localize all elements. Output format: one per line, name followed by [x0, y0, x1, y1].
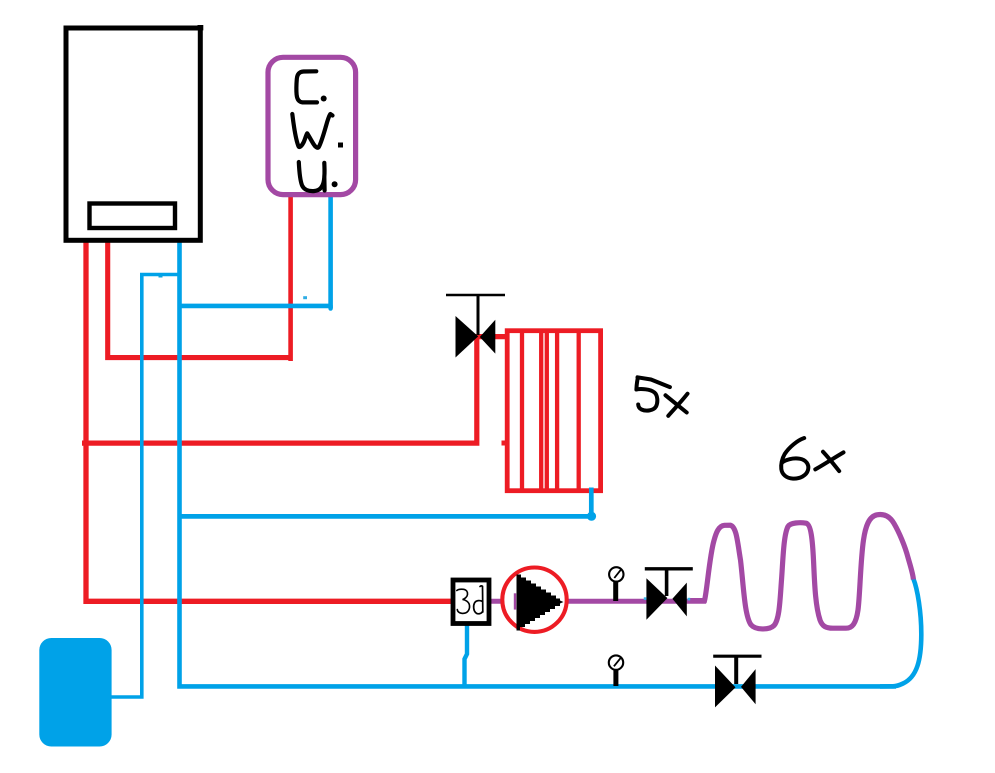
radiator valve — [446, 295, 505, 358]
boiler — [66, 25, 203, 240]
C.W.U. storage tank — [268, 57, 356, 194]
wire: blue stub from 3-way box to bottom line — [465, 624, 468, 686]
label U. — [299, 162, 325, 191]
gauge on purple line — [609, 567, 623, 601]
valve on blue line — [713, 656, 761, 707]
wire: red supply from boiler left port down and right to 3-way box — [86, 239, 452, 601]
boiler burner window — [90, 204, 176, 229]
valve on purple line — [644, 569, 693, 620]
small blue notch under connector — [159, 275, 163, 277]
label W. — [292, 114, 332, 148]
gauge on blue line — [609, 655, 623, 686]
wire: purple line through pump from 3-way box to coil — [490, 599, 706, 604]
label 5x — [636, 377, 687, 416]
wire: red supply boiler second port down, right to CWU riser — [108, 239, 291, 358]
wire: long red branch to radiator valve — [82, 337, 505, 444]
label C. — [296, 71, 317, 102]
red leftover nub at radiator left edge — [502, 441, 507, 446]
pump (red circle, black triangle) — [502, 568, 566, 632]
wire: blue return from CWU tank — [181, 194, 331, 306]
floor heating coil (6x), purple — [688, 514, 913, 628]
expansion tank (solid blue) — [39, 638, 111, 747]
radiator (5x) body — [507, 331, 600, 491]
wire: blue return from radiator bottom — [181, 488, 591, 517]
wire: blue branch to expansion tank — [108, 275, 180, 698]
wire: blue return curve from floor coil — [880, 579, 921, 687]
label 6x — [781, 438, 843, 479]
small blue speck near CWU riser — [303, 296, 307, 299]
wire: red riser from CWU tank bottom — [288, 194, 293, 361]
3-way mixing box "3d" — [453, 580, 489, 624]
wire: blue return from boiler down and along the bottom — [180, 239, 897, 686]
